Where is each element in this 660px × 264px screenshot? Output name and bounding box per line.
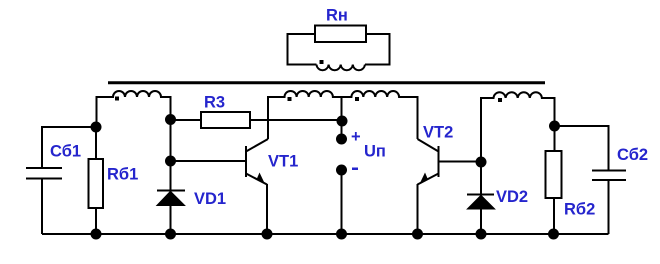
wire VT2 emitter	[417, 184, 419, 234]
polarity mark W2b	[355, 97, 359, 101]
node dot Rб2 top	[549, 121, 560, 132]
polarity mark W2a	[288, 97, 292, 101]
svg-text:Сб2: Сб2	[617, 146, 648, 164]
wire R3 input	[171, 119, 202, 121]
label minus	[352, 168, 358, 171]
diode VD1	[157, 190, 185, 192]
winding W3 (right outer)	[481, 92, 555, 162]
node column VD1	[170, 120, 172, 191]
wire Сб2 bottom	[608, 181, 610, 234]
svg-text:Rн: Rн	[326, 7, 348, 25]
svg-text:R3: R3	[204, 94, 225, 112]
wire Сб2 top	[555, 126, 609, 170]
wire Rн left loop	[288, 34, 317, 65]
transformer core	[108, 81, 545, 84]
wire VT1 base	[171, 160, 246, 162]
node dot minus terminal	[336, 165, 347, 176]
node dot rail 7	[548, 229, 559, 240]
centre tap and supply	[341, 97, 343, 139]
node dot VT2 base	[476, 157, 487, 168]
diode VD2	[467, 194, 494, 196]
wire VT1 emitter	[266, 184, 268, 234]
svg-text:Сб1: Сб1	[50, 143, 81, 161]
capacitor Сб2	[592, 170, 626, 172]
resistor Rб1	[89, 159, 104, 208]
node dot R3 input	[165, 114, 176, 125]
svg-text:+: +	[351, 128, 361, 146]
node dot rail 5	[412, 229, 423, 240]
polarity mark W3	[498, 98, 502, 102]
capacitor Сб1	[26, 167, 62, 169]
svg-text:VD1: VD1	[194, 190, 226, 208]
wire Rб1 leads	[95, 127, 97, 159]
wire capacitor Сб1 top	[42, 127, 96, 167]
bottom rail	[42, 233, 609, 235]
winding W2 (centre, two sections)	[268, 91, 418, 139]
node dot rail 4	[336, 229, 347, 240]
node dot Сб1/Rб1	[91, 122, 102, 133]
winding W4 (to Rн, above core)	[317, 65, 365, 71]
wire Rб2 leads	[554, 126, 556, 151]
winding W1 (left outer)	[97, 91, 171, 127]
node column VD2	[480, 162, 482, 194]
resistor Rб2	[546, 151, 562, 198]
wire VT2 base	[439, 161, 481, 163]
resistor R3	[201, 112, 250, 128]
resistor Rн	[315, 26, 366, 43]
node dot rail 1	[91, 229, 102, 240]
node dot centre tap	[337, 116, 348, 127]
node dot plus terminal	[336, 134, 347, 145]
transistor VT2	[438, 146, 440, 177]
wire Сб1 bottom	[41, 180, 43, 235]
node dot rail 3	[262, 229, 273, 240]
svg-text:VD2: VD2	[496, 188, 528, 206]
svg-text:VT1: VT1	[268, 153, 298, 171]
node dot rail 2	[165, 229, 176, 240]
svg-text:Uп: Uп	[364, 143, 386, 161]
transistor VT1	[245, 146, 247, 177]
node dot rail 6	[476, 229, 487, 240]
svg-text:VT2: VT2	[423, 124, 453, 142]
node dot VT1 base	[165, 156, 176, 167]
wire R3 output to centre tap	[250, 119, 342, 121]
wire Rн right loop	[365, 34, 390, 65]
svg-text:Rб2: Rб2	[564, 201, 595, 219]
polarity mark W1	[115, 97, 119, 101]
polarity mark W4	[320, 60, 324, 64]
svg-text:Rб1: Rб1	[107, 166, 138, 184]
